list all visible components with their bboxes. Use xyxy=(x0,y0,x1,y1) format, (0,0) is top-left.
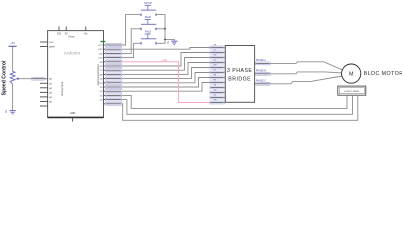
bridge phase output boxes xyxy=(255,59,271,85)
wire D-pin to bridge input 1 xyxy=(122,48,210,50)
junction rail-RwD xyxy=(164,28,166,30)
wire STOP to D12 xyxy=(122,15,140,45)
digital pins D0-D13 xyxy=(99,45,122,104)
svg-text:STOP: STOP xyxy=(144,1,152,5)
potentiometer R1 element xyxy=(10,71,15,84)
wire hall 3 xyxy=(122,95,358,120)
pin 3V3 xyxy=(57,26,62,35)
svg-text:HI2: HI2 xyxy=(214,54,217,56)
wire D-pin to bridge input 7 xyxy=(122,78,210,88)
svg-text:RwD: RwD xyxy=(145,15,151,19)
IC U2 3 phase bridge body xyxy=(225,46,254,103)
net label boxes on digital pins xyxy=(105,44,121,106)
bridge input pin boxes xyxy=(210,44,225,104)
svg-text:PW: PW xyxy=(214,99,217,101)
wire PWM pink xyxy=(122,62,210,103)
ground GND1 xyxy=(4,109,16,114)
wire green stub D13 xyxy=(100,41,105,43)
svg-text:HI3: HI3 xyxy=(214,64,217,66)
svg-text:PHASE A: PHASE A xyxy=(256,59,266,62)
wire D-pin to bridge input 6 xyxy=(122,73,210,83)
svg-text:BLDC MOTOR: BLDC MOTOR xyxy=(364,71,402,77)
svg-text:0v: 0v xyxy=(166,40,170,43)
wire FwD to rail xyxy=(157,39,165,43)
svg-text:LI1: LI1 xyxy=(214,49,217,51)
wire STOP right rail xyxy=(157,15,174,41)
pin RST xyxy=(40,42,54,44)
wire D-pin to bridge input 2 xyxy=(122,53,210,67)
svg-text:BRIDGE: BRIDGE xyxy=(228,77,251,83)
svg-text:Speed Control: Speed Control xyxy=(2,60,8,95)
junction rail-corner xyxy=(164,39,166,41)
power +5v symbol xyxy=(9,41,17,48)
hall effect sensors U3 xyxy=(338,86,366,95)
potentiometer R1 wiper arrow xyxy=(16,77,32,80)
pushbutton S1 STOP xyxy=(140,1,157,16)
wire phase A xyxy=(270,62,343,70)
pin GND xyxy=(70,112,76,121)
wire phase C xyxy=(270,76,342,84)
wire D-pin to bridge input 4 xyxy=(122,63,210,75)
wire +5v to pot xyxy=(12,48,14,72)
analog pins A0-A5 xyxy=(40,78,53,106)
svg-text:GND: GND xyxy=(70,112,76,115)
wire RwD to D10 xyxy=(122,29,140,54)
svg-text:HL EFCT SNSRS: HL EFCT SNSRS xyxy=(344,91,360,93)
IC U1 Arduino body xyxy=(48,31,104,118)
svg-text:PHASE C: PHASE C xyxy=(256,79,266,82)
motor M1 BLDC xyxy=(342,64,361,83)
pin Vin xyxy=(84,26,88,35)
svg-text:Power: Power xyxy=(68,35,75,38)
svg-text:RST: RST xyxy=(49,42,54,44)
wire pot to ground xyxy=(12,84,14,110)
svg-text:M: M xyxy=(349,72,354,78)
wire hall 1 xyxy=(122,95,347,108)
svg-text:LI2: LI2 xyxy=(214,59,217,61)
svg-text:HI1: HI1 xyxy=(214,44,217,46)
svg-text:PWM: PWM xyxy=(162,60,167,62)
svg-text:3V3: 3V3 xyxy=(57,33,62,35)
wire wiper to A0 xyxy=(43,78,47,80)
svg-text:3 PHASE: 3 PHASE xyxy=(227,68,252,74)
wire D-pin to bridge input 5 xyxy=(122,68,210,79)
wire hall 2 xyxy=(122,95,353,114)
pin AREF xyxy=(40,45,56,48)
svg-text:+5v: +5v xyxy=(10,41,15,45)
wire RwD to rail xyxy=(157,28,165,30)
wire D-pin to bridge input 3 xyxy=(122,58,210,71)
svg-text:PHASE B: PHASE B xyxy=(256,69,266,72)
wire FwD to D9 xyxy=(122,43,140,57)
pushbutton S2 RwD xyxy=(140,15,157,30)
net label box pot wiper xyxy=(32,77,44,80)
svg-text:Analog Input: Analog Input xyxy=(61,82,64,96)
pushbutton S3 FwD xyxy=(140,30,157,45)
wire D-pin to bridge input 8 xyxy=(122,83,210,92)
svg-text:0v: 0v xyxy=(4,109,8,112)
svg-text:Arduino: Arduino xyxy=(64,50,81,55)
pin 5V xyxy=(65,26,68,35)
svg-text:FwD: FwD xyxy=(145,30,151,34)
ground GND2 xyxy=(166,40,178,44)
wire phase B xyxy=(270,72,342,74)
svg-text:LI3: LI3 xyxy=(214,69,217,71)
svg-text:AREF: AREF xyxy=(49,45,55,48)
